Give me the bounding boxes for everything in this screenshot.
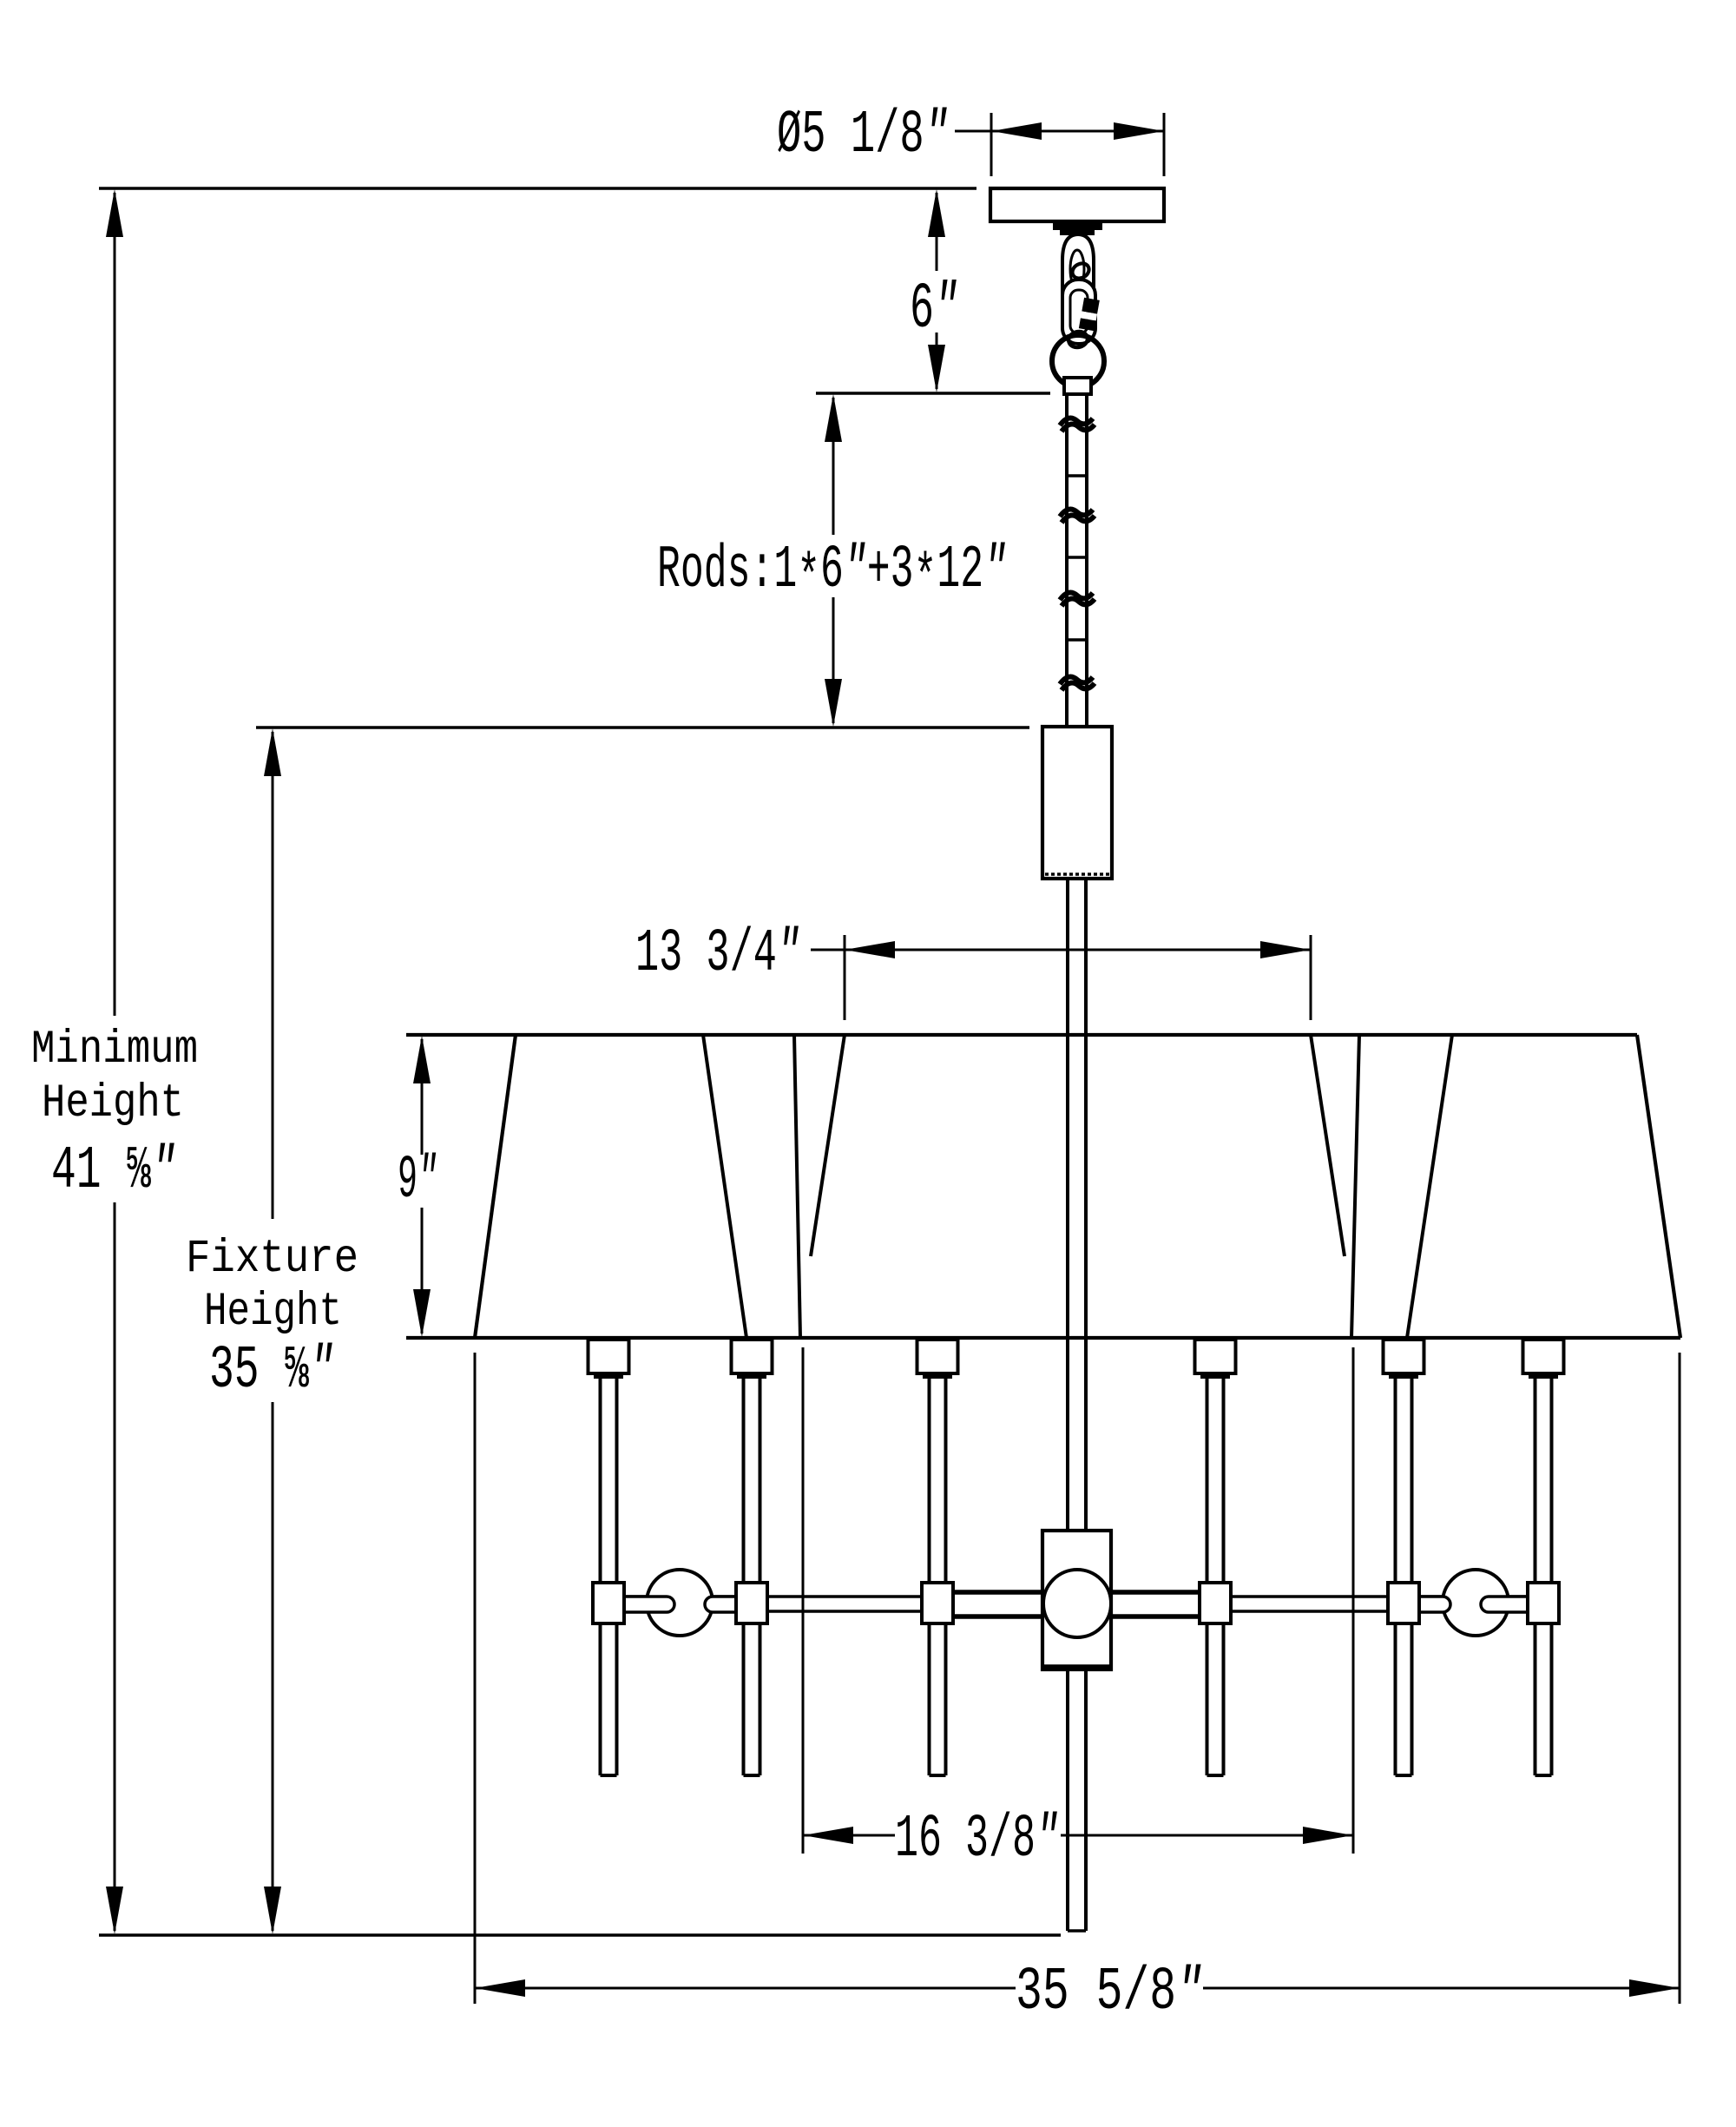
arm clamp square 6 (1528, 1583, 1559, 1623)
shade seam right 2 (1351, 1035, 1359, 1338)
candle socket 1 (589, 1340, 629, 1775)
shade seam right 3 (hidden behind front) (1311, 1035, 1345, 1256)
dimension: canopy diameter 5 1/8 (955, 113, 1164, 176)
dimension: overall width 35 5/8 (475, 1353, 1680, 2004)
rod-top reference line (816, 392, 1050, 395)
fixture-top reference line (256, 726, 1029, 729)
chain link lower (1067, 329, 1089, 349)
shade left outer edge (475, 1035, 516, 1338)
rod twist knot 4 (1060, 676, 1093, 684)
svg-text:41 ⅝″: 41 ⅝″ (51, 1137, 176, 1206)
candle socket 6 (1523, 1340, 1564, 1775)
dimension: 16 3/8 width (803, 1347, 1353, 1854)
arm clamp square 3 (922, 1583, 953, 1623)
dimension: rods length vertical line (825, 394, 842, 727)
center stem (1066, 879, 1069, 1931)
ceiling reference line (top, minimum-height datum) (99, 187, 976, 190)
right arm ball (1443, 1570, 1509, 1636)
shade seam left 2 (794, 1035, 800, 1338)
candle socket 2 (732, 1340, 773, 1775)
svg-text:6″: 6″ (910, 273, 958, 346)
rod ferrule (1064, 378, 1091, 394)
quick link sleeve nut (1079, 298, 1100, 332)
canopy (990, 188, 1164, 221)
rod joint tick 1 (1067, 474, 1087, 477)
candle socket 4 (1195, 1340, 1236, 1775)
arm bar thin right (1200, 1597, 1528, 1611)
chain link upper (1069, 260, 1091, 281)
arm clamp square 5 (1388, 1583, 1419, 1623)
shade top rim (406, 1033, 1637, 1037)
shade seam left 3 (hidden behind front) (811, 1035, 845, 1256)
dimension: shade top width 13 3/4 (811, 935, 1311, 1020)
center hub (1042, 1531, 1111, 1669)
body cylinder (1042, 727, 1112, 879)
arm bar bold right (1110, 1592, 1200, 1617)
arm clamp square 4 (1200, 1583, 1231, 1623)
candle socket 5 (1384, 1340, 1424, 1775)
arm clamp square 2 (736, 1583, 767, 1623)
svg-text:13 3/4″: 13 3/4″ (635, 920, 800, 989)
svg-text:Ø5 1/8″: Ø5 1/8″ (777, 102, 949, 170)
candle socket 3 (917, 1340, 958, 1775)
shade right outer edge (1637, 1035, 1680, 1338)
arm clamp square 1 (593, 1583, 624, 1623)
svg-text:9″: 9″ (398, 1147, 437, 1215)
twisted stem rod (1065, 394, 1069, 727)
left arm ball (647, 1570, 713, 1636)
svg-text:Minimum: Minimum (31, 1024, 198, 1077)
svg-text:Rods:1*6″+3*12″: Rods:1*6″+3*12″ (657, 537, 1007, 614)
dimension: Fixture Height 35 5/8 vertical line (264, 728, 281, 1934)
rod joint tick 2 (1067, 556, 1087, 559)
rod twist knot 1 (1060, 418, 1093, 425)
dimension: 6 inch chain drop (928, 189, 945, 392)
canopy nut (1053, 222, 1102, 230)
dimension: shade height 9 inch (413, 1036, 431, 1337)
hang ring (1052, 335, 1104, 387)
rod twist knot 3 (1060, 592, 1093, 600)
shade seam right 1 (1407, 1035, 1452, 1338)
shade bottom rim (406, 1336, 1680, 1340)
hang loop (1062, 234, 1094, 328)
arm bar thin left (624, 1597, 953, 1611)
dimension: Minimum Height 41 5/8 vertical line (106, 189, 123, 1934)
svg-text:35 5/8″: 35 5/8″ (1016, 1959, 1203, 2027)
shade seam left 1 (703, 1035, 746, 1338)
svg-text:Height: Height (42, 1077, 184, 1130)
svg-text:16 3/8″: 16 3/8″ (895, 1806, 1059, 1874)
bottom reference line (fixture bottom datum) (99, 1933, 1061, 1937)
svg-text:35 ⅝″: 35 ⅝″ (209, 1337, 334, 1406)
arm bar bold left (953, 1592, 1044, 1617)
cylinder bottom knurl (1045, 873, 1109, 876)
quick link body (1062, 280, 1095, 344)
svg-text:Height: Height (204, 1286, 342, 1339)
rod joint tick 3 (1067, 638, 1087, 642)
rod twist knot 2 (1060, 509, 1093, 517)
center ball (1043, 1570, 1111, 1637)
svg-text:Fixture: Fixture (186, 1233, 358, 1286)
